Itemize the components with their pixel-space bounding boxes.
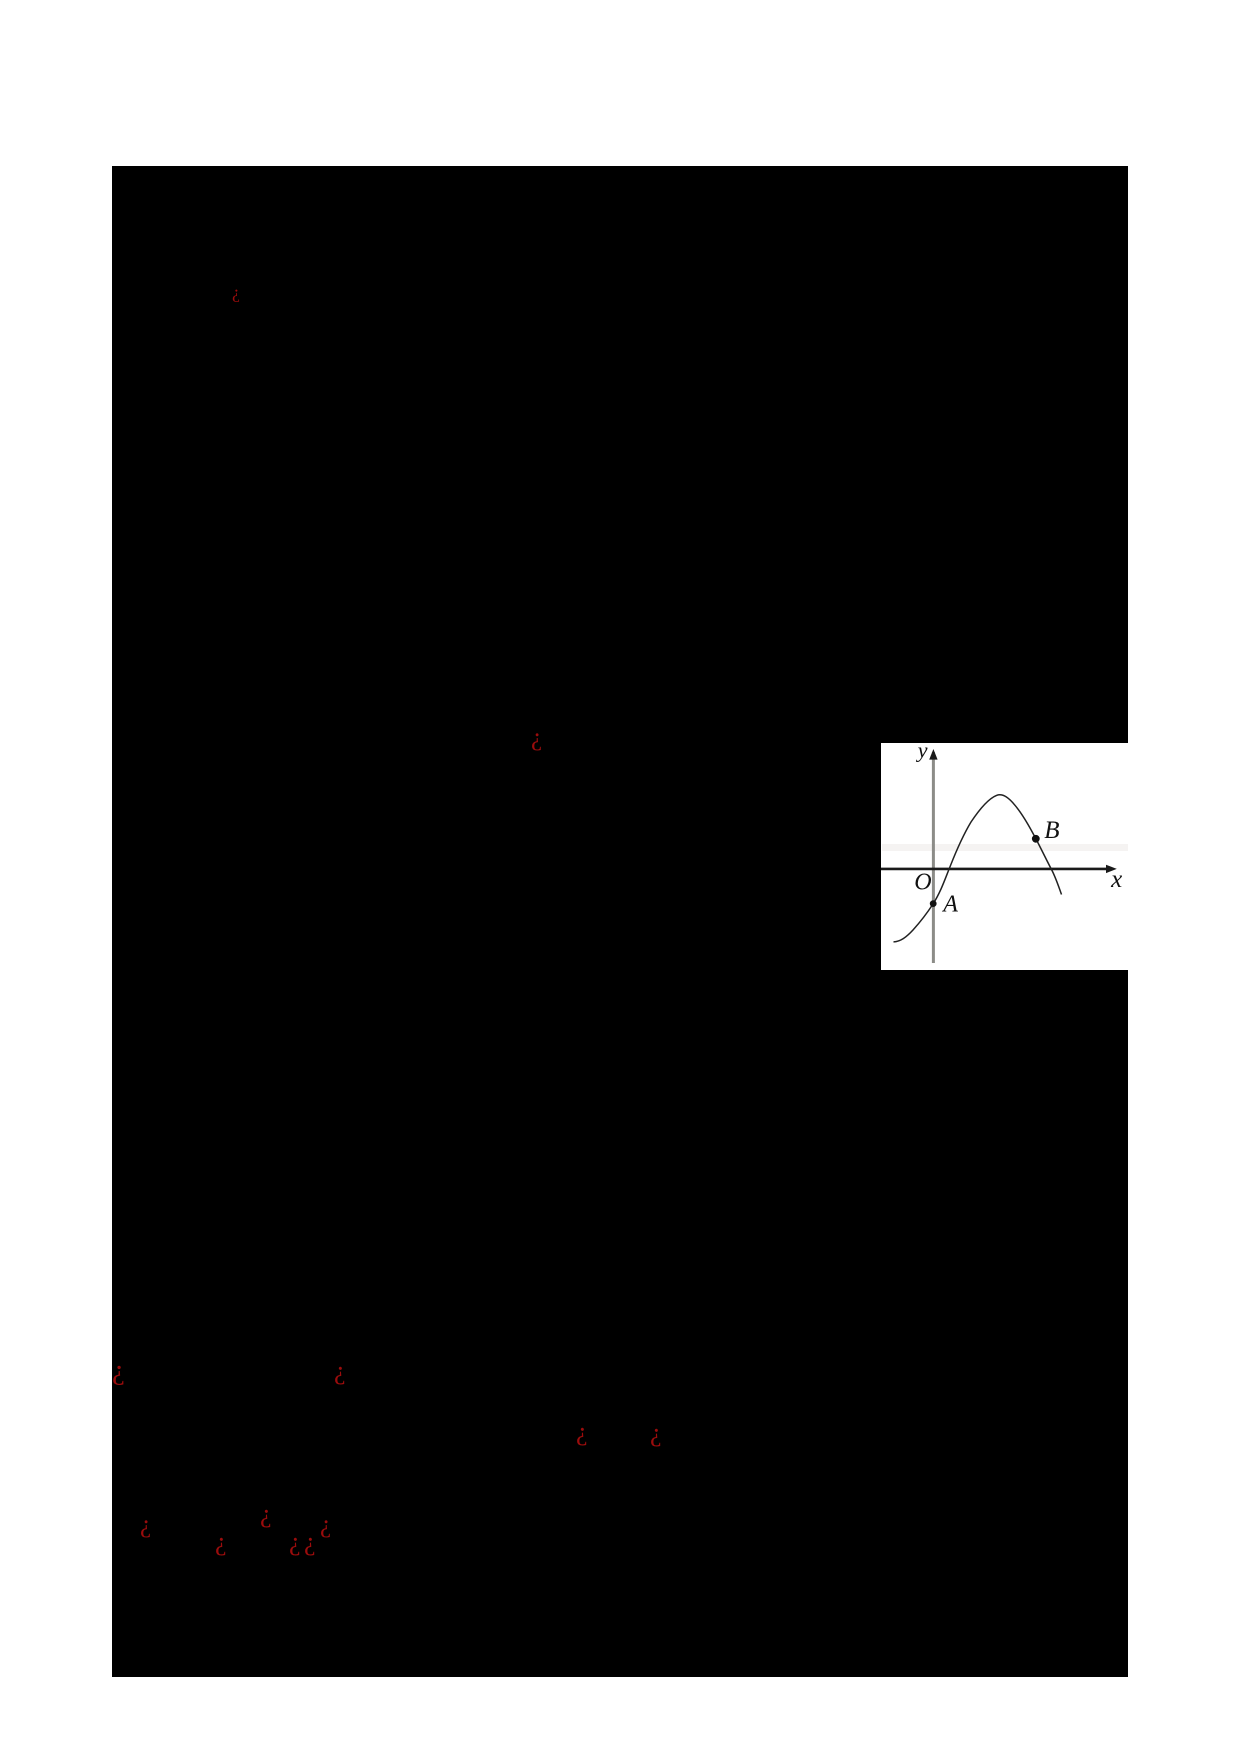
red glyph q9 <box>260 1513 272 1515</box>
red glyph q1 <box>232 291 240 293</box>
red glyph q5 <box>576 1431 588 1433</box>
red glyph q10 <box>289 1541 301 1543</box>
svg-text:A: A <box>941 892 958 918</box>
figure: white graph panel <box>881 743 1129 970</box>
point B dot <box>1032 835 1040 843</box>
x-axis arrowhead <box>1106 865 1117 873</box>
curve of cubic function <box>894 795 1062 942</box>
svg-text:y: y <box>916 743 928 763</box>
y-axis line <box>932 752 935 963</box>
red glyph q3 <box>112 1369 125 1371</box>
figure: graph svg <box>881 743 1129 970</box>
red glyph q8 <box>215 1541 227 1543</box>
figure: faint scan stripe <box>882 844 1128 851</box>
red glyph q6 <box>650 1432 662 1434</box>
red glyph q7 <box>140 1524 151 1526</box>
black redacted text block <box>112 166 1128 1677</box>
red glyph q11 <box>304 1541 316 1543</box>
svg-text:B: B <box>1044 817 1059 844</box>
x-axis line <box>881 868 1110 871</box>
red glyph q12 <box>320 1524 331 1526</box>
svg-text:O: O <box>914 870 931 896</box>
point A dot <box>930 900 937 907</box>
svg-text:x: x <box>1110 866 1122 893</box>
y-axis arrowhead <box>929 749 937 760</box>
red glyph q4 <box>334 1370 346 1372</box>
red glyph q2 <box>531 737 542 739</box>
